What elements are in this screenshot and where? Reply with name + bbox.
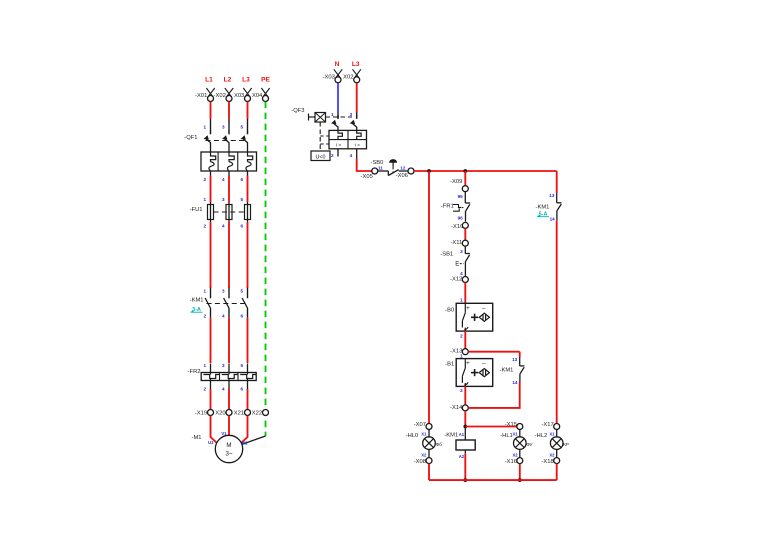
svg-text:L2: L2	[224, 77, 232, 84]
svg-text:-X07: -X07	[414, 422, 426, 428]
svg-text:4: 4	[222, 314, 225, 319]
lamp HL1	[519, 430, 521, 437]
svg-text:5: 5	[240, 197, 243, 202]
svg-text:A2: A2	[459, 454, 465, 459]
svg-text:-X02: -X02	[214, 93, 226, 99]
svg-text:6: 6	[240, 177, 243, 182]
wire	[247, 171, 249, 176]
svg-text:-X11: -X11	[450, 240, 462, 246]
wire motor V	[228, 416, 230, 436]
svg-text:95: 95	[458, 194, 464, 199]
svg-text:X2: X2	[421, 452, 427, 457]
FU1 linkage dashed	[214, 211, 245, 213]
wire	[464, 229, 466, 241]
coil KM1	[464, 427, 466, 441]
svg-text:–: –	[482, 305, 486, 312]
svg-text:3: 3	[222, 197, 225, 202]
wire	[247, 389, 249, 409]
QF1 thermal box	[201, 152, 257, 171]
svg-text:5: 5	[240, 363, 243, 368]
wire	[228, 222, 230, 288]
svg-text:-KM1: -KM1	[536, 205, 550, 211]
QF3 undervoltage release U<	[311, 151, 330, 161]
QF3 manual actuator	[309, 116, 316, 118]
svg-text:5: 5	[240, 289, 243, 294]
junction node	[518, 478, 522, 482]
terminal X07	[426, 424, 432, 430]
svg-text:-QF3: -QF3	[291, 108, 304, 114]
svg-text:-B1: -B1	[445, 362, 454, 368]
svg-text:-FR2: -FR2	[188, 369, 201, 375]
svg-text:–: –	[482, 360, 486, 367]
svg-text:X21: X21	[234, 411, 244, 417]
svg-text:13: 13	[512, 357, 518, 362]
wire	[556, 221, 558, 424]
wire right branch top	[556, 171, 558, 193]
wire	[519, 464, 521, 480]
wire motor W	[239, 416, 247, 445]
terminal X12	[462, 277, 468, 283]
svg-text:3: 3	[222, 363, 225, 368]
svg-text:1: 1	[203, 363, 206, 368]
junction node	[463, 169, 467, 173]
svg-text:X03: X03	[234, 93, 244, 99]
terminal X05	[372, 168, 378, 174]
svg-text:6: 6	[240, 314, 243, 319]
svg-text:-M1: -M1	[192, 435, 202, 441]
svg-text:-FU1: -FU1	[190, 207, 203, 213]
wire	[247, 318, 249, 363]
svg-text:PE: PE	[261, 77, 270, 84]
terminal X15	[517, 424, 523, 430]
wire	[464, 331, 466, 349]
QF1 linkage dashed	[206, 140, 247, 142]
svg-text:14: 14	[512, 380, 518, 385]
svg-text:A1: A1	[459, 432, 465, 437]
connector terminal X03	[243, 88, 250, 97]
terminal X09	[462, 186, 468, 192]
junction node	[463, 478, 467, 482]
svg-text:-X08: -X08	[414, 459, 426, 465]
terminal X17	[554, 424, 560, 430]
svg-text:-KM1: -KM1	[500, 367, 514, 373]
wire	[464, 283, 466, 304]
svg-text:2: 2	[203, 314, 206, 319]
svg-text:I >: I >	[336, 143, 342, 149]
svg-text:X2: X2	[512, 452, 518, 457]
svg-text:L3: L3	[352, 61, 360, 68]
wire	[210, 389, 212, 409]
svg-text:-X16: -X16	[505, 459, 517, 465]
svg-text:6: 6	[240, 224, 243, 229]
svg-text:2: 2	[331, 153, 334, 158]
wire L3 drop	[247, 102, 249, 119]
svg-text:2: 2	[460, 333, 463, 338]
svg-text:4: 4	[222, 387, 225, 392]
svg-text:3: 3	[460, 249, 463, 254]
connector terminal -X03	[334, 69, 341, 78]
wire to X15	[465, 426, 516, 428]
svg-text:+: +	[466, 360, 470, 367]
wire motor U	[211, 416, 219, 445]
wire N blue	[337, 83, 339, 113]
svg-text:-X18: -X18	[541, 459, 553, 465]
terminal X14	[462, 405, 468, 411]
SB0 NC contact	[378, 170, 388, 172]
svg-text:6: 6	[240, 387, 243, 392]
wire	[464, 386, 466, 405]
svg-text:14: 14	[550, 216, 556, 221]
svg-text:-X19: -X19	[195, 411, 207, 417]
connector terminal X02	[225, 88, 232, 97]
svg-text:4: 4	[460, 271, 463, 276]
wire PE green dashed	[265, 102, 267, 436]
svg-text:-B0: -B0	[445, 307, 454, 313]
svg-text:1: 1	[460, 298, 463, 303]
svg-text:5: 5	[240, 125, 243, 130]
svg-text:X1: X1	[512, 432, 518, 437]
wire	[464, 411, 466, 427]
wire	[210, 318, 212, 363]
svg-text:2: 2	[203, 177, 206, 182]
KM1 linkage dashed	[207, 303, 247, 305]
svg-text:U1: U1	[208, 440, 214, 445]
connector terminal X01	[206, 88, 213, 97]
terminal X21	[245, 410, 251, 416]
wire self-hold branch	[468, 351, 519, 353]
svg-text:-X06: -X06	[396, 173, 408, 179]
svg-text:3: 3	[222, 125, 225, 130]
connector terminal X04	[261, 88, 268, 97]
terminal X11	[462, 240, 468, 246]
wire L3 to SB0	[357, 159, 372, 172]
terminal X13	[462, 349, 468, 355]
junction node	[463, 425, 467, 429]
svg-text:96: 96	[458, 215, 464, 220]
svg-text:1: 1	[203, 197, 206, 202]
svg-text:3~: 3~	[225, 451, 233, 458]
QF3 N tail	[337, 149, 339, 157]
svg-text:Фб: Фб	[436, 442, 442, 447]
wire	[210, 222, 212, 288]
svg-text:X1: X1	[549, 432, 555, 437]
QF3 linkage dashes	[326, 116, 353, 118]
svg-text:3: 3	[222, 289, 225, 294]
wire motor PE bond	[242, 436, 266, 444]
wire	[228, 389, 230, 409]
connector terminal X02	[353, 69, 360, 78]
motor circle	[215, 435, 242, 462]
wire	[210, 171, 212, 176]
wire	[464, 454, 466, 480]
svg-text:-X12: -X12	[450, 277, 462, 283]
svg-text:-HL0: -HL0	[406, 433, 419, 439]
wire bottom rail	[429, 479, 557, 481]
terminal X22	[263, 410, 269, 416]
svg-text:ФУ: ФУ	[526, 442, 532, 447]
svg-text:-X09: -X09	[450, 179, 462, 185]
svg-text:L3: L3	[242, 77, 250, 84]
svg-text:1: 1	[460, 354, 463, 359]
wire L1 drop	[210, 102, 212, 119]
svg-text:U<0: U<0	[315, 154, 325, 160]
svg-text:-SB1: -SB1	[440, 251, 453, 257]
svg-text:13: 13	[549, 193, 555, 198]
svg-text:X04: X04	[252, 93, 263, 99]
svg-text:1: 1	[203, 289, 206, 294]
svg-text:4: 4	[350, 153, 353, 158]
wire	[468, 382, 519, 408]
QF3 release box	[329, 130, 367, 148]
lamp HL0	[428, 430, 430, 437]
svg-text:-KM1: -KM1	[190, 298, 204, 304]
svg-text:X20: X20	[215, 411, 225, 417]
svg-text:-FR1: -FR1	[441, 204, 454, 210]
svg-text:X02: X02	[343, 74, 353, 80]
svg-text:-X15: -X15	[505, 422, 517, 428]
svg-text:X2: X2	[549, 452, 555, 457]
terminal X08	[426, 458, 432, 464]
svg-text:-X14: -X14	[450, 405, 463, 411]
svg-text:E: E	[455, 262, 459, 268]
wire	[228, 318, 230, 363]
wire control rail	[414, 170, 557, 172]
svg-text:11: 11	[378, 165, 383, 170]
svg-text:-KM1: -KM1	[444, 433, 458, 439]
svg-text:-QF1: -QF1	[184, 135, 197, 141]
svg-text:M: M	[226, 442, 231, 449]
svg-text:-X01: -X01	[195, 93, 207, 99]
wire L3 red	[356, 83, 358, 113]
terminal X20	[226, 410, 232, 416]
wire left branch	[428, 171, 430, 423]
svg-text:+: +	[466, 305, 470, 312]
QF3 L3 tail	[356, 149, 358, 159]
lamp HL2	[556, 430, 558, 437]
svg-text:-HL2: -HL2	[535, 433, 548, 439]
terminal X10	[462, 222, 468, 228]
svg-text:2: 2	[203, 387, 206, 392]
svg-text:12: 12	[400, 165, 406, 170]
pushbutton SB1 NC contact	[464, 246, 466, 253]
svg-text:-X17: -X17	[541, 422, 553, 428]
svg-text:2: 2	[460, 388, 463, 393]
svg-text:4: 4	[222, 224, 225, 229]
wire	[464, 171, 466, 186]
FR2 box	[201, 373, 256, 381]
svg-text:-X10: -X10	[451, 224, 463, 230]
wire	[428, 464, 430, 480]
SB0 mushroom head	[390, 160, 397, 163]
svg-text:1: 1	[203, 125, 206, 130]
svg-text:-X05: -X05	[361, 174, 373, 180]
svg-text:X1: X1	[421, 432, 427, 437]
svg-text:4: 4	[222, 177, 225, 182]
svg-text:L1: L1	[205, 77, 213, 84]
svg-text:X22: X22	[252, 411, 262, 417]
terminal -X19	[208, 410, 214, 416]
svg-text:КР: КР	[563, 442, 569, 447]
svg-text:-HL1: -HL1	[500, 433, 513, 439]
svg-text:-X03: -X03	[323, 74, 335, 80]
wire	[228, 171, 230, 176]
svg-text:2: 2	[203, 224, 206, 229]
wire L2 drop	[228, 102, 230, 119]
terminal X18	[554, 458, 560, 464]
svg-text:I >: I >	[354, 143, 360, 149]
junction node	[427, 169, 431, 173]
terminal X16	[517, 458, 523, 464]
terminal X06	[408, 168, 414, 174]
wire	[247, 222, 249, 288]
wire	[556, 464, 558, 480]
svg-text:N: N	[335, 61, 340, 68]
svg-text:3: 3	[350, 112, 353, 117]
svg-text:1: 1	[331, 112, 334, 117]
